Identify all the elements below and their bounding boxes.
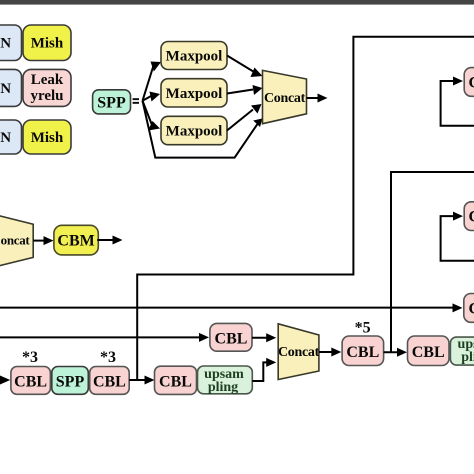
legend box BN row2: [0, 69, 22, 106]
svg-text:Maxpool: Maxpool: [166, 124, 223, 140]
wire full-width feature line to head CBL: [0, 303, 463, 312]
svg-text:*3: *3: [100, 349, 116, 366]
svg-text:SPP: SPP: [56, 374, 85, 391]
wire fan to Maxpool3: [143, 101, 161, 131]
block Maxpool 3: [161, 116, 227, 144]
wire Concat out arrow: [307, 94, 328, 103]
svg-text:BN: BN: [0, 36, 11, 52]
wire Maxpool1 to Concat: [227, 56, 263, 78]
svg-text:CBL: CBL: [14, 374, 47, 391]
block CBM: [54, 225, 98, 255]
wire fan to Maxpool1: [143, 62, 162, 101]
block upsampling (left): [198, 366, 253, 395]
svg-text:CBL: CBL: [159, 374, 192, 391]
svg-text:Mish: Mish: [31, 130, 64, 146]
wire Concat to CBM: [33, 236, 53, 245]
block CBL (*5): [342, 336, 384, 366]
wire CBL*5 to CBL: [384, 348, 407, 357]
wire Maxpool3 to Concat: [227, 104, 262, 131]
svg-text:CBL: CBL: [412, 344, 445, 361]
legend box Mish row3: [23, 120, 71, 154]
svg-text:CBL: CBL: [469, 301, 474, 318]
svg-text:*5: *5: [355, 320, 371, 337]
wire Maxpool2 to Concat: [227, 85, 263, 95]
block Concat (left, clipped): [0, 213, 33, 269]
block CBL (head 2): [408, 336, 450, 366]
block CBL (mid): [210, 323, 252, 351]
wire backbone stage-2 frame (right big rect): [391, 172, 474, 352]
svg-text:CBL: CBL: [93, 374, 126, 391]
svg-text:yrelu: yrelu: [30, 88, 63, 104]
wire residual loop 1 (top right): [441, 77, 474, 126]
block CBL (residual unit 2, clipped): [464, 202, 474, 231]
block Concat (SPP): [263, 70, 307, 123]
svg-text:Concat: Concat: [0, 233, 30, 248]
svg-text:CBL: CBL: [469, 209, 474, 226]
wire SPP bypass to Concat: [143, 101, 263, 158]
wire mid feature line to CBL: [0, 333, 209, 342]
equals sign: [133, 98, 139, 104]
block CBL (neck row 1): [11, 367, 51, 395]
block CBL (residual unit 1, clipped): [464, 68, 474, 97]
wire residual loop 2 (right): [441, 212, 474, 261]
svg-text:SPP: SPP: [97, 95, 126, 112]
svg-text:Concat: Concat: [264, 91, 306, 106]
svg-text:*3: *3: [22, 349, 38, 366]
wire junction into CBL3: [129, 376, 154, 385]
block Maxpool 2: [161, 79, 227, 107]
block Concat (bottom): [278, 324, 320, 380]
legend box Leaky relu row2: [23, 69, 71, 106]
wire CBM out arrow: [97, 236, 122, 245]
block upsampling (right, clipped): [450, 337, 474, 365]
svg-text:Maxpool: Maxpool: [166, 49, 223, 65]
legend box BN row3: [0, 120, 22, 154]
wire fan to Maxpool2: [143, 92, 161, 102]
svg-text:BN: BN: [0, 81, 11, 97]
svg-text:Maxpool: Maxpool: [166, 86, 223, 102]
legend box BN row1: [0, 25, 22, 61]
svg-text:CBL: CBL: [346, 344, 379, 361]
svg-text:BN: BN: [0, 130, 11, 146]
block Maxpool 1: [161, 42, 227, 70]
wire upsampling to Concat: [252, 358, 276, 381]
svg-text:pling: pling: [461, 350, 474, 365]
svg-text:pling: pling: [208, 380, 238, 395]
wire left input arrow to CBL row: [0, 376, 10, 385]
svg-text:CBL: CBL: [215, 331, 248, 348]
top crop bar: [0, 0, 474, 5]
block CBL (neck row 3): [155, 366, 197, 394]
wire Concat bottom out: [319, 348, 341, 357]
svg-text:Mish: Mish: [31, 36, 64, 52]
svg-text:CBM: CBM: [57, 232, 94, 249]
svg-text:CBL: CBL: [469, 75, 474, 92]
wire backbone stage-1 frame (top right big rect, routes down-left to neck): [137, 37, 474, 380]
legend box Mish row1: [23, 25, 71, 61]
block CBL (head, right edge, clipped): [464, 294, 474, 323]
svg-text:Leak: Leak: [31, 72, 64, 88]
block CBL (neck row 2): [90, 367, 130, 395]
svg-text:Concat: Concat: [278, 345, 320, 360]
block SPP (neck): [52, 367, 89, 395]
block SPP definition: [93, 90, 131, 114]
wire CBL mid to Concat: [252, 333, 276, 342]
